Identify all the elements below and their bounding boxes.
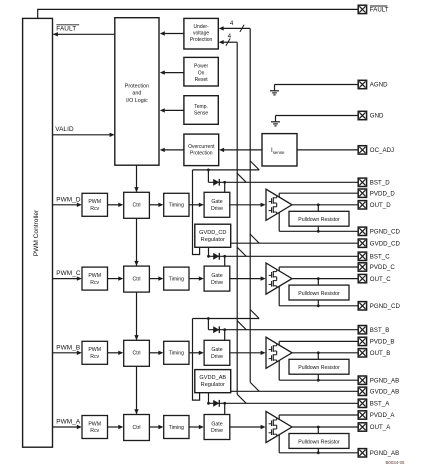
pin PVDD_A bbox=[358, 411, 395, 419]
wire UVP to prot-logic bbox=[160, 31, 184, 35]
svg-text:Gate: Gate bbox=[211, 347, 222, 353]
wire OUT_A net bbox=[292, 426, 358, 429]
pin AGND bbox=[358, 80, 388, 88]
svg-text:voltage: voltage bbox=[193, 31, 209, 37]
svg-text:GVDD_CD: GVDD_CD bbox=[199, 230, 226, 236]
wire Ctrl A to Timing A bbox=[149, 425, 163, 429]
wire Isense to OC_ADJ pin bbox=[297, 149, 358, 151]
svg-text:Drive: Drive bbox=[211, 280, 223, 286]
wire U-connector feed D to CD regulator bbox=[193, 170, 200, 255]
bus end diagonal GVDD_AB bbox=[250, 382, 259, 391]
block GVDD_AB Regulator bbox=[195, 370, 231, 393]
wire Ctrl D to Ctrl C bbox=[134, 218, 138, 266]
svg-text:Ctrl: Ctrl bbox=[132, 276, 140, 282]
wire BST_C net with bootstrap diode DC bbox=[208, 253, 358, 266]
svg-text:Rcv: Rcv bbox=[90, 206, 99, 212]
block Isense bbox=[262, 134, 297, 166]
wire BST_B net with bootstrap diode DB bbox=[208, 326, 358, 340]
bus tap diagonal to BST_D bbox=[237, 173, 246, 182]
block Ctrl B bbox=[124, 340, 150, 366]
block GVDD_CD Regulator bbox=[195, 224, 231, 247]
svg-text:Ctrl: Ctrl bbox=[132, 425, 140, 431]
pin PGND_CD (D low side) bbox=[358, 227, 400, 235]
pin OC_ADJ bbox=[358, 146, 394, 154]
svg-text:GVDD_AB: GVDD_AB bbox=[199, 375, 226, 381]
svg-text:Rcv: Rcv bbox=[90, 354, 99, 360]
block Timing B bbox=[164, 341, 189, 364]
figure code bbox=[385, 460, 405, 465]
wire GVDD_CD feed to D bootstrap bbox=[193, 169, 260, 183]
wire Gate Drive B to output stage bbox=[230, 351, 266, 355]
svg-text:PWM: PWM bbox=[88, 199, 101, 205]
svg-text:BST_A: BST_A bbox=[370, 401, 390, 408]
wire GVDD_AB net to pin bbox=[231, 390, 359, 392]
wire Timing D to Gate Drive D bbox=[189, 203, 204, 207]
svg-text:Rcv: Rcv bbox=[90, 428, 99, 434]
svg-text:Protection: Protection bbox=[190, 37, 213, 43]
wire PWM Rcv A to Ctrl A bbox=[108, 425, 124, 429]
power stage half-bridge triangle B bbox=[266, 337, 292, 368]
wire OUT_D net bbox=[292, 203, 358, 206]
pin OUT_C bbox=[358, 274, 391, 282]
pin OUT_B bbox=[358, 349, 390, 357]
power stage half-bridge triangle D bbox=[266, 189, 292, 220]
power stage half-bridge triangle C bbox=[266, 263, 292, 294]
pin PVDD_C bbox=[358, 263, 395, 271]
wire Timing A to Gate Drive A bbox=[189, 425, 204, 429]
block Gate Drive B bbox=[204, 340, 230, 365]
wire Gate Drive A to output stage bbox=[230, 425, 266, 429]
svg-text:PWM: PWM bbox=[88, 421, 101, 427]
wire BST_A net with bootstrap diode DA bbox=[208, 400, 358, 415]
bus tap diagonal GVDD feed D bbox=[250, 161, 259, 170]
wire Gate Drive D to output stage bbox=[230, 203, 266, 207]
svg-text:OUT_A: OUT_A bbox=[370, 424, 391, 431]
wire Ctrl D to Timing D bbox=[149, 203, 163, 207]
svg-text:Timing: Timing bbox=[169, 276, 184, 282]
svg-text:Reset: Reset bbox=[195, 77, 209, 83]
block Pulldown Resistor B bbox=[289, 353, 349, 382]
bus tap diagonal GVDD feed B bbox=[250, 310, 259, 319]
svg-text:BST_C: BST_C bbox=[370, 254, 390, 261]
wire Ctrl C to Ctrl B bbox=[134, 292, 138, 340]
pin OUT_D bbox=[358, 201, 391, 209]
pin PGND_CD (C low side) bbox=[358, 302, 400, 310]
svg-text:Power: Power bbox=[194, 64, 209, 70]
svg-text:PGND_CD: PGND_CD bbox=[370, 303, 401, 310]
wire OC to prot-logic bbox=[160, 148, 184, 152]
svg-text:GND: GND bbox=[370, 113, 384, 120]
block Power On Reset bbox=[184, 57, 218, 86]
svg-text:Ctrl: Ctrl bbox=[132, 203, 140, 209]
wire AB regulator to A bootstrap bbox=[207, 393, 210, 405]
wire prot-logic to Ctrl D bbox=[134, 165, 138, 192]
svg-text:OUT_B: OUT_B bbox=[370, 350, 391, 357]
svg-text:Drive: Drive bbox=[211, 206, 223, 212]
wire PWM_D input with label bbox=[53, 196, 82, 207]
wire PWM Rcv B to Ctrl B bbox=[108, 351, 124, 355]
svg-text:Overcurrent: Overcurrent bbox=[188, 144, 215, 150]
wire PWM Rcv D to Ctrl D bbox=[108, 203, 124, 207]
svg-text:PVDD_D: PVDD_D bbox=[370, 190, 396, 197]
block PWM Rcv B bbox=[82, 341, 108, 364]
svg-text:Timing: Timing bbox=[169, 351, 184, 357]
svg-text:PGND_CD: PGND_CD bbox=[370, 229, 401, 236]
block Gate Drive A bbox=[204, 415, 230, 440]
pin GVDD_CD bbox=[358, 239, 400, 247]
svg-text:GVDD_AB: GVDD_AB bbox=[370, 389, 399, 396]
bus wire into UVP pin2 with width-4 slash bbox=[219, 33, 238, 46]
svg-text:PVDD_B: PVDD_B bbox=[370, 339, 395, 346]
svg-text:OUT_C: OUT_C bbox=[370, 276, 391, 283]
svg-text:VALID: VALID bbox=[55, 126, 74, 133]
svg-text:FAULT: FAULT bbox=[370, 7, 389, 14]
IC block PWM Controller bbox=[23, 18, 53, 447]
block Pulldown Resistor A bbox=[289, 427, 349, 454]
wire PWM_C input with label bbox=[53, 270, 82, 281]
pin PGND_AB (A low side) bbox=[358, 449, 399, 457]
bus tap diagonal to BST_B bbox=[237, 321, 246, 330]
svg-text:PGND_AB: PGND_AB bbox=[370, 450, 399, 457]
svg-text:Pulldown Resistor: Pulldown Resistor bbox=[298, 439, 340, 445]
svg-text:PVDD_C: PVDD_C bbox=[370, 264, 396, 271]
svg-text:Protection: Protection bbox=[125, 83, 149, 89]
pin BST_B bbox=[358, 326, 389, 334]
wire FAULT with label bbox=[53, 25, 115, 37]
wire OUT_C net bbox=[292, 277, 358, 280]
svg-text:I/O Logic: I/O Logic bbox=[126, 98, 148, 104]
block Gate Drive D bbox=[204, 192, 230, 217]
block PWM Rcv C bbox=[82, 267, 108, 290]
wire Gate Drive C to output stage bbox=[230, 276, 266, 280]
svg-text:On: On bbox=[198, 70, 205, 76]
svg-text:PWM_A: PWM_A bbox=[56, 419, 81, 426]
block Timing C bbox=[164, 267, 189, 290]
wire PVDD_A / PGND rail loop bbox=[279, 415, 358, 453]
bus wire into UVP pin1 with width-4 slash bbox=[219, 20, 251, 32]
svg-text:Pulldown Resistor: Pulldown Resistor bbox=[298, 291, 340, 297]
svg-text:FAULT: FAULT bbox=[56, 26, 76, 33]
block Ctrl A bbox=[124, 415, 150, 441]
wire PVDD_C / PGND rail loop bbox=[279, 267, 358, 306]
svg-text:Timing: Timing bbox=[169, 203, 184, 209]
svg-text:BST_B: BST_B bbox=[370, 327, 390, 334]
block Under-voltage Protection bbox=[184, 18, 218, 49]
svg-text:4: 4 bbox=[228, 33, 232, 40]
wire temp-sense to prot-logic bbox=[160, 108, 184, 112]
block Timing A bbox=[164, 416, 189, 439]
pin BST_D bbox=[358, 178, 390, 186]
svg-text:Rcv: Rcv bbox=[90, 280, 99, 286]
svg-text:PWM_D: PWM_D bbox=[56, 196, 81, 203]
wire POR to prot-logic bbox=[160, 70, 184, 74]
svg-text:GVDD_CD: GVDD_CD bbox=[370, 240, 401, 247]
svg-text:and: and bbox=[132, 91, 141, 97]
svg-text:Timing: Timing bbox=[169, 425, 184, 431]
pin BST_C bbox=[358, 252, 390, 260]
wire U-connector feed B to AB regulator bbox=[193, 319, 200, 401]
block Gate Drive C bbox=[204, 266, 230, 291]
block Temp Sense bbox=[184, 96, 218, 125]
svg-text:Pulldown Resistor: Pulldown Resistor bbox=[298, 365, 340, 371]
wire PWM_A input with label bbox=[53, 419, 82, 430]
pin BST_A bbox=[358, 399, 390, 407]
ground GND symbol and wire to pin bbox=[271, 116, 358, 126]
svg-text:Drive: Drive bbox=[211, 428, 223, 434]
block Overcurrent Protection bbox=[184, 134, 219, 166]
pin OUT_A bbox=[358, 423, 391, 431]
svg-text:PVDD_A: PVDD_A bbox=[370, 412, 396, 419]
wire PWM_B input with label bbox=[53, 344, 82, 355]
svg-text:PWM_B: PWM_B bbox=[56, 344, 80, 351]
block Timing D bbox=[164, 193, 189, 216]
svg-text:AGND: AGND bbox=[370, 82, 388, 89]
wire Timing B to Gate Drive B bbox=[189, 351, 204, 355]
wire PWM Rcv C to Ctrl C bbox=[108, 276, 124, 280]
svg-text:Gate: Gate bbox=[211, 273, 222, 279]
block PWM Rcv A bbox=[82, 416, 108, 439]
bus tap diagonal to BST_A bbox=[237, 394, 246, 403]
wire GVDD_CD net to pin bbox=[231, 242, 359, 244]
svg-text:Ctrl: Ctrl bbox=[132, 351, 140, 357]
svg-text:BST_D: BST_D bbox=[370, 180, 390, 187]
svg-text:OUT_D: OUT_D bbox=[370, 202, 391, 209]
svg-text:PWM: PWM bbox=[88, 273, 101, 279]
wire Ctrl B to Ctrl A bbox=[134, 366, 138, 414]
bus vertical GVDD right x=250 bbox=[249, 28, 251, 382]
pin GND bbox=[358, 111, 384, 119]
bus vertical GVDD left x=237 bbox=[236, 42, 238, 394]
wire VALID with label bbox=[53, 126, 115, 137]
block Ctrl C bbox=[124, 266, 150, 292]
svg-text:PWM_C: PWM_C bbox=[56, 270, 81, 277]
svg-text:Protection: Protection bbox=[190, 150, 213, 156]
wire Ctrl B to Timing B bbox=[149, 351, 163, 355]
svg-text:Regulator: Regulator bbox=[201, 237, 225, 243]
bus tap diagonal to BST_C bbox=[237, 247, 246, 256]
block Pulldown Resistor C bbox=[289, 279, 349, 308]
svg-text:PWM Controller: PWM Controller bbox=[33, 209, 40, 256]
svg-text:Gate: Gate bbox=[211, 199, 222, 205]
block PWM Rcv D bbox=[82, 193, 108, 216]
block Protection and I/O Logic U-prot bbox=[115, 18, 159, 166]
power stage half-bridge triangle A bbox=[266, 411, 292, 442]
wire Isense to OC prot bbox=[219, 148, 262, 152]
svg-text:4: 4 bbox=[230, 20, 234, 27]
wire GVDD_AB feed to B bootstrap bbox=[193, 317, 260, 330]
wire BST_D net with bootstrap diode DD bbox=[208, 179, 358, 192]
block Pulldown Resistor D bbox=[289, 205, 349, 233]
svg-text:OC_ADJ: OC_ADJ bbox=[370, 147, 394, 154]
svg-text:Drive: Drive bbox=[211, 354, 223, 360]
block Ctrl D bbox=[124, 192, 150, 218]
svg-text:Sense: Sense bbox=[194, 110, 208, 116]
wire PVDD_B / PGND rail loop bbox=[279, 341, 358, 380]
svg-text:Temp.: Temp. bbox=[194, 104, 208, 110]
wire FAULT net top rail bbox=[38, 9, 359, 19]
svg-text:Gate: Gate bbox=[211, 421, 222, 427]
wire CD regulator to C bootstrap bbox=[207, 247, 210, 257]
ground AGND symbol and wire to pin bbox=[270, 85, 358, 95]
svg-text:Regulator: Regulator bbox=[201, 382, 225, 388]
bus tap diagonal GVDD_CD bbox=[250, 234, 259, 243]
svg-text:Pulldown Resistor: Pulldown Resistor bbox=[298, 217, 340, 223]
pin GVDD_AB bbox=[358, 387, 399, 395]
wire Ctrl C to Timing C bbox=[149, 276, 163, 280]
svg-text:B0034-05: B0034-05 bbox=[385, 460, 405, 465]
pin PVDD_D bbox=[358, 189, 395, 197]
pin PGND_AB (B low side) bbox=[358, 376, 399, 384]
pin PVDD_B bbox=[358, 337, 394, 345]
wire PVDD_D / PGND rail loop bbox=[279, 193, 358, 231]
wire OUT_B net bbox=[292, 351, 358, 354]
svg-text:Under-: Under- bbox=[193, 24, 209, 30]
svg-text:PWM: PWM bbox=[88, 347, 101, 353]
wire Timing C to Gate Drive C bbox=[189, 276, 204, 280]
pin FAULT bbox=[358, 5, 389, 13]
svg-text:PGND_AB: PGND_AB bbox=[370, 377, 399, 384]
